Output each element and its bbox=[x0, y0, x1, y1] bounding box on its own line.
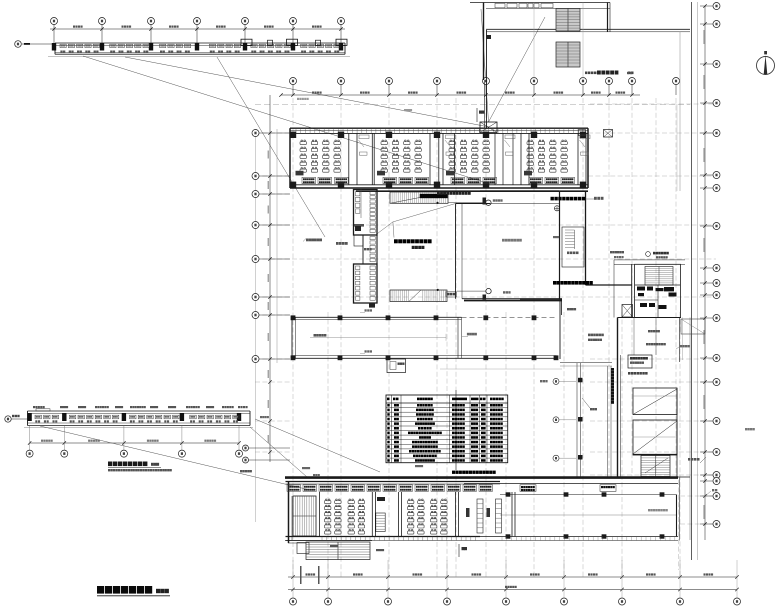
courtyard lower stair leader circle bbox=[437, 288, 511, 293]
detail strip B title text bbox=[108, 462, 172, 472]
leader line strip A steep bbox=[217, 57, 325, 237]
east wing stair room bbox=[553, 227, 584, 267]
bottom band classroom walls bbox=[320, 492, 516, 537]
courtyard lower stair bbox=[390, 290, 457, 302]
site line above plan bbox=[255, 104, 690, 106]
top wing rooftop units bbox=[495, 3, 553, 7]
long building outer walls bbox=[292, 299, 560, 359]
left grid bubbles column bbox=[252, 129, 290, 522]
small annex box below long building bbox=[387, 359, 406, 373]
leader line from strip A to canopy box bbox=[125, 57, 489, 127]
section flag marks bbox=[459, 108, 485, 557]
top band classroom desks bbox=[300, 140, 567, 172]
outdoor unit box east bbox=[681, 319, 705, 334]
band right end box bbox=[579, 130, 586, 136]
east wing lower walls bbox=[634, 318, 683, 363]
drawing title bbox=[97, 586, 170, 596]
east wing telecom circle bbox=[554, 206, 559, 211]
top band outer walls bbox=[290, 128, 588, 188]
top band room label boxes bbox=[302, 177, 575, 183]
top wing stair shaft lower bbox=[556, 42, 580, 67]
top dimension line bbox=[279, 92, 640, 97]
right wing east edge bbox=[618, 318, 691, 541]
bottom band label row bbox=[287, 485, 493, 492]
misc small annotations bbox=[240, 72, 755, 552]
bottom band label row second bbox=[520, 485, 616, 492]
bottom cable tray thick line bbox=[285, 471, 678, 478]
courtyard upper stair leader circle bbox=[436, 199, 502, 205]
bottom band outer walls bbox=[286, 482, 501, 544]
electrical room bbox=[635, 264, 681, 345]
south corridor verticals bbox=[553, 334, 612, 477]
electrical room cross box bbox=[622, 305, 633, 318]
leader lines from top wing label bbox=[481, 9, 545, 122]
bottom corridor walls bbox=[285, 478, 680, 541]
bottom band east rooms fixtures bbox=[466, 499, 502, 533]
courtyard level marks and labels bbox=[303, 192, 471, 249]
detail strip B equipment band bbox=[24, 406, 253, 428]
detail strip A equipment band bbox=[48, 39, 350, 56]
grid horizontal lines bbox=[255, 104, 716, 524]
courtyard void room (dining hall below) bbox=[456, 198, 563, 301]
top wing walls bbox=[470, 3, 690, 129]
legend table bbox=[386, 390, 508, 470]
right wing ramp upper bbox=[633, 388, 677, 415]
detail strip A left leader bubble bbox=[15, 41, 56, 48]
detail strip B column bubbles bbox=[26, 450, 242, 457]
electrical room annunciator circle bbox=[646, 252, 669, 259]
leader line from strip B to stairwell bbox=[40, 426, 310, 490]
right wing vertical cable tray label bbox=[611, 368, 668, 511]
top band cable tray line bbox=[356, 190, 588, 192]
right site boundary lines bbox=[692, 2, 698, 560]
top band teacher desks bbox=[296, 171, 533, 176]
detail strip A dimension line bbox=[50, 26, 345, 31]
detail strip A column bubbles bbox=[51, 18, 345, 44]
bottom band mid stair bbox=[376, 497, 385, 532]
top wing interior marks bbox=[486, 3, 634, 81]
right wing leader arrow bbox=[582, 398, 597, 410]
bottom band window mullions bbox=[322, 537, 476, 541]
leader line across site bbox=[255, 419, 380, 472]
top band prep room fixtures bbox=[359, 135, 591, 155]
right vertical dimension line bbox=[703, 4, 706, 540]
bottom grid bubbles row bbox=[290, 598, 741, 605]
bottom band classroom desks bbox=[325, 499, 448, 534]
right wing west wall bbox=[618, 318, 621, 478]
cable tray label mid bbox=[553, 281, 593, 285]
long building columns bbox=[291, 315, 559, 360]
bottom band entrance steps bbox=[288, 542, 370, 560]
detail strip B left leader bubble bbox=[5, 415, 28, 422]
leader line from strip A to plan bbox=[83, 56, 490, 184]
top band room dividing walls bbox=[349, 133, 586, 184]
leader line from strip B right end bbox=[250, 427, 307, 477]
top wing stair shaft upper bbox=[556, 9, 580, 32]
east wing cable tray label upper bbox=[551, 197, 604, 201]
courtyard upper stair bbox=[390, 192, 448, 203]
right wing ramp lower bbox=[633, 420, 677, 455]
bottom dimension lines bbox=[288, 560, 739, 598]
long building center line and labels bbox=[310, 309, 562, 369]
right wing top room bbox=[628, 355, 652, 375]
right grid bubbles column bbox=[700, 3, 720, 528]
top grid bubbles row bbox=[290, 78, 680, 96]
top band columns bbox=[290, 132, 586, 188]
left lower small bubbles bbox=[243, 445, 291, 463]
detail strip B dimension line bbox=[28, 426, 241, 450]
north arrow compass bbox=[757, 51, 775, 75]
bottom band stairwell bbox=[293, 496, 316, 536]
east field edge line bbox=[677, 32, 680, 191]
left vertical dimension line bbox=[268, 95, 277, 462]
central block upper toilet bbox=[354, 190, 378, 236]
grid vertical lines bbox=[293, 98, 680, 577]
central block connector bbox=[354, 235, 377, 264]
right wing stair bbox=[633, 455, 677, 477]
central block lower toilet bbox=[354, 264, 378, 308]
east small box with cross bbox=[604, 130, 613, 138]
canopy box with cross bbox=[480, 122, 497, 133]
east wing main walls bbox=[480, 191, 685, 318]
electrical room stair hatch bbox=[645, 267, 673, 286]
